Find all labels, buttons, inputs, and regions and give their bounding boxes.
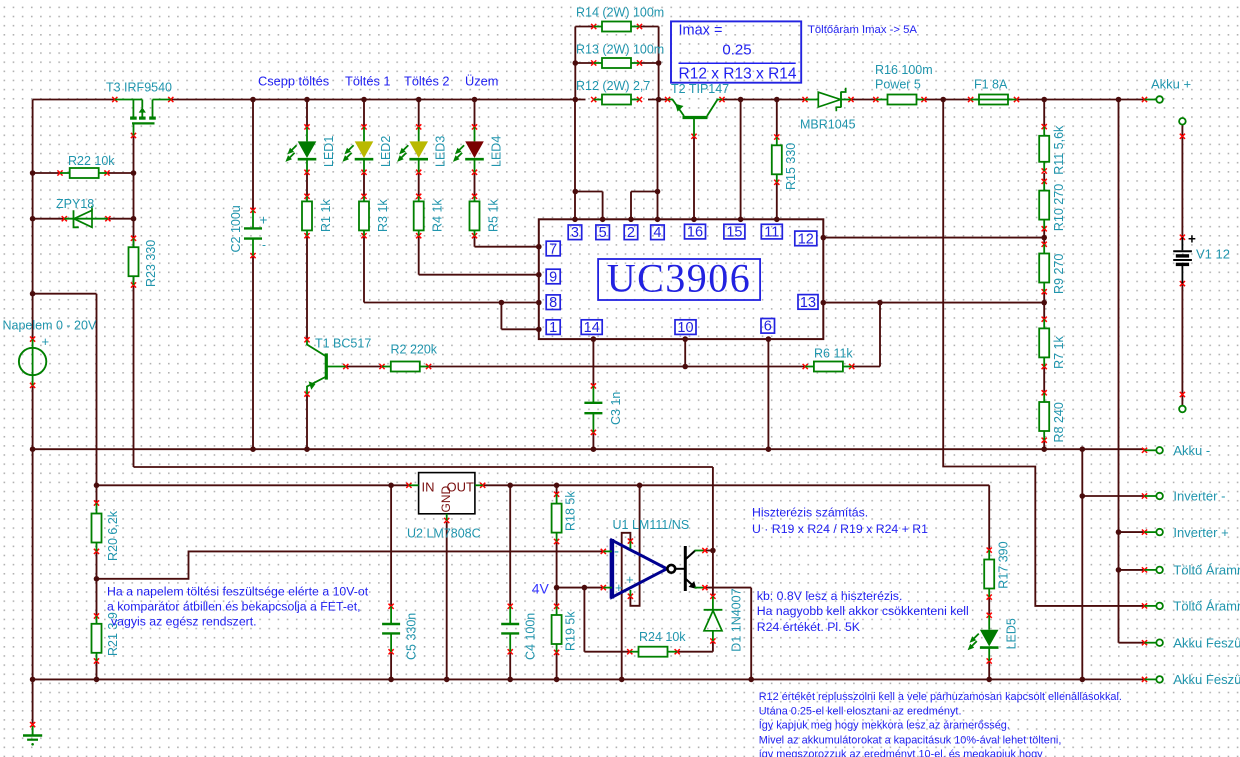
label R12 [576,79,650,93]
wire: battery feed column x=1118.5 [1119,100,1145,643]
svg-text:C3 1n: C3 1n [609,392,623,425]
wire: inverter- branch [1082,495,1144,497]
label T3 [106,81,172,95]
label R17 [997,541,1011,588]
resistor R22 [57,168,109,178]
svg-text:R16 100m: R16 100m [875,63,933,77]
label MBR1045 [800,118,856,132]
wire: R24 to D1 [677,641,713,652]
wire: charge-current+ branch [1119,569,1145,571]
wire: C2 column [252,100,254,450]
terminal Akku Feszultseg - [1142,672,1240,687]
label LED3 [434,136,448,167]
wire: R12-R14 left vertical [574,27,576,100]
label LED5 [1005,618,1019,649]
resistor R16 [873,95,926,105]
svg-text:C4 100n: C4 100n [524,613,538,660]
label 4V [532,580,550,596]
svg-text:R2 220k: R2 220k [391,343,438,357]
label R11 [1052,125,1066,175]
wire: R12-R14 right vertical [658,27,660,100]
label C3 [609,392,623,425]
wire: LED3/R4 column [418,100,420,275]
pin 8 box [546,295,560,311]
wire: main top rail segments y=99.5 [33,99,1145,101]
capacitor C5 [382,604,400,655]
svg-text:-: - [262,238,266,252]
svg-text:4V: 4V [532,580,550,596]
svg-text:T1 BC517: T1 BC517 [315,337,371,351]
label C5 [405,613,419,660]
svg-text:Töltő Árammérés: Töltő Árammérés [1173,599,1240,614]
svg-text:R22 10k: R22 10k [68,154,115,168]
svg-text:15: 15 [726,225,742,241]
svg-text:U · R19 x R24 / R19 x R24 +: U · R19 x R24 / R19 x R24 + R1 [752,522,928,536]
wire: R22 row y=173 [33,172,134,174]
svg-text:vagyis az egész rendszert.: vagyis az egész rendszert. [111,615,257,629]
svg-text:R4 1k: R4 1k [431,199,445,232]
wire: R14 row y=26.5 [575,26,658,28]
svg-text:LED1: LED1 [322,136,336,167]
svg-text:7: 7 [549,241,557,257]
terminal Inverter + [1142,525,1229,540]
label R16 [875,63,933,92]
svg-text:Utána 0.25-el kell elosztani a: Utána 0.25-el kell elosztani az eredmény… [759,706,962,718]
svg-text:Ha nagyobb kell akkor csökkent: Ha nagyobb kell akkor csökkenteni kell [757,604,969,618]
svg-text:10: 10 [677,320,693,336]
resistor R8 [1039,390,1049,443]
transistor T3 IRF9540 [112,97,173,138]
capacitor C4 [501,604,519,655]
svg-text:5: 5 [599,225,607,241]
resistor R9 [1039,242,1049,295]
terminal Akku - [1142,443,1210,458]
capacitor C3 [584,383,602,435]
svg-text:Akku Feszültség: Akku Feszültség [1173,672,1240,687]
label R23 [144,240,158,287]
resistor R19 [552,604,562,655]
wire: pin7 row y=246.7 [475,246,539,248]
label R4 [431,199,445,232]
wire: R24 feedback hook [584,588,629,652]
resistor R10 [1039,179,1049,232]
resistor R12 [591,95,642,105]
label F1 [974,78,1008,92]
comparator U1 LM111 [601,539,708,599]
wire: pin11 column (R15) [776,100,778,220]
wire: R18/R19 column [556,485,558,679]
svg-text:UC3906: UC3906 [607,256,752,301]
wire: T1 emitter column [306,394,308,449]
label R14 [576,6,664,20]
svg-text:R8 240: R8 240 [1052,402,1066,442]
wire: R9-R11 ladder column x=1044.2 [1043,100,1045,450]
svg-text:R11 5,6k: R11 5,6k [1052,125,1066,175]
diode D1 1N4007 [704,594,723,644]
wire: D1 to output [712,551,714,597]
wire: ground rail y=679.4 [33,678,1145,680]
svg-text:F1 8A: F1 8A [974,78,1008,92]
svg-text:R3 1k: R3 1k [376,199,390,232]
wire: plus input row [557,587,604,589]
resistor R20 [92,500,102,554]
wire: R13 row y=63 [575,62,658,64]
svg-text:1: 1 [549,320,557,336]
svg-text:11: 11 [764,225,779,241]
wire: battery bottom lead [1181,284,1183,406]
resistor R11 [1039,124,1049,174]
label LED1 [322,136,336,167]
LED LED3 [397,124,428,175]
wire: LED2/R3 column [363,100,365,303]
wire: pin13 row y=302.6 [823,302,1044,304]
wire: inverter+ branch [1119,531,1145,533]
wire: comparator v+ pin [630,485,639,606]
label D1 [730,588,744,651]
svg-text:Töltés 1: Töltés 1 [345,74,391,89]
label U2 [407,527,481,541]
wire: R6 hook to pin13 line [852,303,880,367]
pin 4 box [651,225,665,241]
svg-text:Napelem 0 - 20V: Napelem 0 - 20V [3,319,97,333]
svg-text:R15 330: R15 330 [784,143,798,190]
svg-text:3: 3 [571,225,579,241]
svg-text:V1 12: V1 12 [1196,247,1230,262]
pin 12 box [795,231,817,247]
wire: pin9 row y=274.7 [419,274,539,276]
svg-text:Töltő Árammérés: Töltő Árammérés [1173,563,1240,578]
svg-text:13: 13 [800,295,816,311]
svg-text:C2 100u: C2 100u [229,205,243,252]
label U1 [613,518,690,532]
wire: pin4 column [657,100,659,220]
label R1 [319,199,333,232]
wire: pin5 hook [575,192,603,220]
svg-text:Üzem: Üzem [465,74,498,89]
terminal battery bottom [1179,406,1186,413]
svg-text:R23 330: R23 330 [144,240,158,287]
resistor R15 [772,134,782,185]
pin 7 box [546,241,560,257]
svg-text:IN: IN [422,480,435,495]
terminal Akku + [1142,77,1191,103]
wire: comparator gnd pin [622,533,631,680]
svg-text:R18 5k: R18 5k [564,491,578,531]
svg-text:4: 4 [653,225,661,241]
wire: C4 column [509,485,511,679]
LED LED2 [342,124,373,175]
regulator U2 LM7808C [406,473,485,523]
wire: akku-/ground tie column x=1082.3 [1081,449,1083,679]
note kb line1 [757,589,903,603]
svg-text:0.25: 0.25 [722,41,751,58]
svg-text:Csepp töltés: Csepp töltés [258,74,329,89]
svg-text:R12 értékét replusszolni kell: R12 értékét replusszolni kell a vele pár… [759,691,1122,703]
svg-text:T2 TIP147: T2 TIP147 [671,82,729,96]
pin 13 box [798,295,818,311]
label R22 [68,154,115,168]
label R24 [639,630,686,644]
svg-text:Ha a napelem töltési feszültsé: Ha a napelem töltési feszültsége elérte … [107,585,369,599]
wire: ZPY18 row y=218.7 [33,218,134,220]
svg-text:R12 x R13 x R14: R12 x R13 x R14 [679,65,797,82]
svg-text:Imax =: Imax = [679,23,723,39]
label R2 [391,343,438,357]
svg-text:Akku Feszültség: Akku Feszültség [1173,635,1240,650]
svg-text:U2 LM7808C: U2 LM7808C [407,527,481,541]
svg-text:Mivel az akkumulátorokat a kap: Mivel az akkumulátorokat a kapacitásuk 1… [759,735,1062,747]
svg-text:8: 8 [549,295,557,311]
wire: pin15 column [740,100,742,220]
svg-text:R24 10k: R24 10k [639,630,686,644]
svg-text:MBR1045: MBR1045 [800,118,856,132]
wire: R2 to pin10 junction to R6 [429,366,806,368]
note r12 line3 [759,718,1010,731]
wire: pin10 column [684,339,686,366]
resistor R14 [591,22,642,32]
svg-text:LED2: LED2 [379,136,393,167]
wire: akku- terminal lead [0,0,1,1]
label C2 [229,205,243,252]
resistor R24 [627,647,680,657]
wire: pin3 column [574,100,576,220]
label R13 [576,43,664,57]
wire: 8V rail y=485.3 [97,484,990,486]
wire: pin6 column [767,339,769,449]
note r12 line4 [759,735,1062,747]
wire: comparator output lead [705,550,713,552]
svg-text:-: - [614,543,619,560]
wire: battery top lead [1181,125,1183,238]
label R10 [1052,184,1066,231]
capacitor C2 [244,208,268,259]
wire: pin16 column (T2 base) [693,136,695,219]
svg-text:Power 5: Power 5 [875,78,921,92]
resistor R17 [984,548,994,600]
wire: pin12 row y=237.6 [823,237,1044,239]
svg-text:R13 (2W) 100m: R13 (2W) 100m [576,43,664,57]
resistor R18 [552,492,562,544]
wire: pin1 hook [501,303,538,330]
svg-text:R9 270: R9 270 [1052,254,1066,294]
transistor T2 TIP147 [665,97,725,139]
battery V1 [1173,134,1196,397]
wire: gate to comparator output y=467 [134,467,713,551]
svg-text:R1 1k: R1 1k [319,199,333,232]
note kb line3 [757,620,861,634]
fuse F1 [968,95,1019,105]
svg-text:R7 1k: R7 1k [1052,335,1066,368]
label R18 [564,491,578,531]
svg-text:R10 270: R10 270 [1052,184,1066,231]
svg-text:kb: 0.8V lesz a hiszterézis.: kb: 0.8V lesz a hiszterézis. [757,589,903,603]
svg-text:R12 (2W) 2,7: R12 (2W) 2,7 [576,79,650,93]
pin 1 box [546,320,560,336]
svg-text:Inverter -: Inverter - [1173,489,1225,504]
label R9 [1052,254,1066,294]
svg-text:12: 12 [798,231,814,247]
svg-text:16: 16 [687,225,703,241]
svg-text:9: 9 [549,269,557,285]
terminal Inverter - [1142,489,1226,504]
svg-text:LED5: LED5 [1005,618,1019,649]
diode ZPY18 [62,206,111,228]
wire: pin8 row y=302.5 [364,302,539,304]
svg-text:D1 1N4007: D1 1N4007 [730,588,744,651]
svg-text:Töltőáram Imax -> 5A: Töltőáram Imax -> 5A [808,24,917,36]
svg-text:LED3: LED3 [434,136,448,167]
LED LED5 [968,613,999,664]
svg-text:U1 LM111/NS: U1 LM111/NS [613,518,690,532]
wire: pin14/C3 column [592,339,594,449]
resistor R21 [92,613,102,663]
svg-text:GND: GND [439,486,453,513]
diode MBR1045 [802,88,853,111]
wire: T1 base to R2 [346,366,382,368]
IC U3 UC3906 outline [539,219,824,339]
svg-text:Így kapjuk meg hogy mekkora le: Így kapjuk meg hogy mekkora lesz az áram… [759,718,1010,731]
terminal battery top [1179,118,1186,125]
svg-text:LED4: LED4 [490,136,504,167]
label LED4 [490,136,504,167]
note napelem line1 [107,585,369,599]
svg-text:+: + [626,572,634,587]
note hiszterezis line2 [752,522,928,536]
svg-text:a komparátor átbillen és bekap: a komparátor átbillen és bekapcsolja a F… [107,600,361,614]
label Toltes 2 [404,74,450,89]
svg-text:ZPY18: ZPY18 [56,197,94,211]
wire: charge-current sense path [943,100,1144,606]
note hiszterezis line1 [752,506,868,520]
wire: left rail x=32.6 [32,100,34,725]
pin 14 box [581,320,602,336]
note r12 line5 [759,749,1043,757]
resistor R1 [302,194,312,239]
wire: U2 GND column [446,522,448,679]
label Napelem [3,319,97,333]
svg-text:+: + [615,580,623,595]
svg-text:2: 2 [627,225,635,241]
label R15 [784,143,798,190]
label Uzem [465,74,498,89]
label R3 [376,199,390,232]
label R7 [1052,335,1066,368]
svg-text:Hiszterézis számítás.: Hiszterézis számítás. [752,506,868,520]
svg-text:+: + [42,334,50,349]
resistor R4 [414,194,424,239]
svg-text:+: + [260,213,268,228]
wire: solar top branch [33,294,97,486]
note r12 line2 [759,706,962,718]
resistor R23 [129,236,139,288]
label T2 [671,82,729,96]
label R21 [106,612,120,656]
svg-text:+: + [1188,232,1196,247]
resistor R6 [803,362,855,372]
svg-text:R14 (2W) 100m: R14 (2W) 100m [576,6,664,20]
svg-text:Inverter +: Inverter + [1173,525,1228,540]
resistor R7 [1039,317,1049,370]
label R19 [564,611,578,651]
pin 10 box [675,320,696,336]
svg-text:6: 6 [764,319,772,335]
label Napelem plus [42,334,50,349]
wire: R17/LED5 column [988,485,990,679]
pin 5 box [596,225,610,241]
wire: comparator emitter to ground [705,588,751,680]
transistor T1 BC517 [304,337,348,397]
svg-text:Akku +: Akku + [1151,77,1191,92]
terminal Tolto Arammeres + [1142,563,1240,578]
label C4 [524,613,538,660]
wire: solar divider column [96,485,98,679]
svg-text:Akku -: Akku - [1173,443,1210,458]
LED LED4 [453,124,484,175]
pin 16 box [685,224,706,240]
svg-text:T3 IRF9540: T3 IRF9540 [106,81,172,95]
resistor R3 [359,194,369,239]
svg-text:Töltés 2: Töltés 2 [404,74,450,89]
label LED2 [379,136,393,167]
label ZPY18 [56,197,94,211]
wire: C5 column [390,485,392,679]
pin 9 box [546,269,560,285]
pin 11 box [761,224,782,240]
note napelem line2 [107,600,361,614]
LED LED1 [285,124,316,175]
svg-text:R20 6,2k: R20 6,2k [106,510,120,561]
label R20 [106,510,120,561]
formula box Imax [671,21,801,82]
label R6 [814,347,853,361]
pin 6 box [761,319,775,335]
svg-text:R6 11k: R6 11k [814,347,853,361]
ground symbol [23,722,42,746]
label Csepp toltes [258,74,329,89]
pin 15 box [724,224,745,240]
terminal Tolto Arammeres - [1142,599,1240,614]
svg-text:R17 390: R17 390 [997,541,1011,588]
label R8 [1052,402,1066,442]
wire: LED4/R5 column [474,100,476,247]
terminal Akku Feszultseg + [1142,635,1240,650]
wire: comparator minus staircase [97,551,604,578]
label Toltes 1 [345,74,391,89]
label V1 [1196,247,1230,262]
pin 2 box [624,225,638,241]
solar cell source [19,337,46,389]
svg-text:így megszorozzuk az eredményt: így megszorozzuk az eredményt 10-el, és … [759,749,1043,757]
svg-text:R5 1k: R5 1k [487,199,501,232]
svg-text:R19 5k: R19 5k [564,611,578,651]
wire: pin2 hook [631,192,658,220]
resistor R13 [591,58,642,68]
pin 3 box [568,225,582,241]
note kb line2 [757,604,969,618]
note r12 line1 [759,691,1122,703]
label T1 [315,337,371,351]
svg-text:C5 330n: C5 330n [405,613,419,660]
wire: gate column x=133.5 [133,136,135,468]
svg-text:14: 14 [584,320,600,336]
resistor R2 [379,362,431,372]
UC3906 name box [598,256,760,301]
label R5 [487,199,501,232]
svg-text:R24 értékét. Pl. 5K: R24 értékét. Pl. 5K [757,620,861,634]
wire: LED1/R1 column [306,100,308,340]
label Toltoaram [808,24,917,36]
wire: Akku- rail y=449.2 [33,448,1145,450]
